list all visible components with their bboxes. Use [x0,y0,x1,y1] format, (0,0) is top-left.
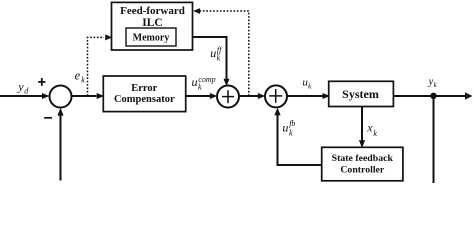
svg-text:k: k [289,129,293,138]
label u_k^ff [210,46,223,63]
label − (S1 negative input) [44,117,52,119]
block: Error Compensator [103,76,185,112]
svg-text:u: u [282,121,288,135]
label y_k [428,77,438,89]
svg-text:k: k [217,54,221,63]
label + (S1 positive input) [38,78,45,86]
label u_k [302,77,312,91]
svg-text:k: k [81,76,85,85]
wire: u_k from S3 to System [287,93,330,99]
label u_k^comp [192,75,216,91]
svg-text:Error: Error [131,83,157,94]
block: Memory [126,28,176,46]
svg-text:e: e [75,68,81,82]
svg-text:u: u [192,75,198,89]
svg-text:y: y [17,80,24,94]
svg-text:x: x [366,121,373,135]
svg-text:ILC: ILC [142,17,162,29]
wire: output feedback into S1 negative input (bottom, cropped) [57,108,63,181]
svg-text:System: System [342,87,379,101]
svg-text:comp: comp [198,75,215,84]
summing junction S2 [217,86,239,108]
wire: y_k feedback down right side (cropped at bottom) [433,96,435,183]
svg-text:u: u [210,46,216,60]
svg-text:Feed-forward: Feed-forward [120,5,185,17]
label x_k [366,121,377,138]
wire: error signal e_k from S1 to Error Compensator [72,93,105,99]
svg-text:Memory: Memory [133,32,170,43]
wire: x_k from System to State feedback Controller [359,107,365,148]
wire: S2 to S3 [239,93,265,99]
block: Feed-forward ILC [112,2,193,50]
wire: u_k^ff from ILC output to S2 [193,37,230,86]
wire: u_k^comp from Error Compensator to S2 [186,93,218,99]
summing junction S3 [265,85,287,107]
wire: output y_k from System to right edge [393,92,472,99]
svg-text:k: k [373,129,377,138]
block: State feedback Controller [322,147,403,181]
svg-text:State feedback: State feedback [332,153,394,164]
wire: reference input y_d into summing junction S1 [0,93,50,99]
label e_k [75,68,86,84]
svg-text:Controller: Controller [340,164,385,175]
dashed wire: learning update tap back to Feed-forward ILC [193,8,249,96]
dashed wire: e_k tap up into Feed-forward ILC [88,34,113,96]
wire: u_k^fb from State feedback Controller to S3 [274,108,321,165]
svg-text:Compensator: Compensator [114,94,175,105]
svg-text:fb: fb [289,119,295,128]
label y_d [17,80,29,96]
summing junction S1 [50,86,72,108]
node: y_k pickoff [430,93,436,99]
block: System [329,81,394,106]
label u_k^fb [282,119,295,137]
